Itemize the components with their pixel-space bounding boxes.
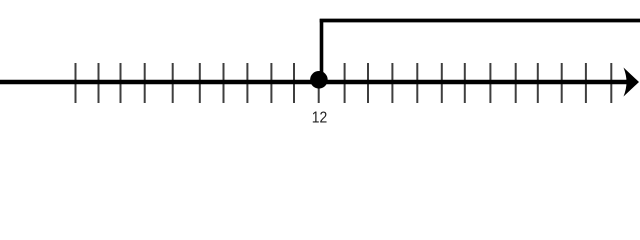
- tick 21: [561, 63, 563, 103]
- tick 10: [293, 63, 295, 103]
- tick 22: [585, 63, 587, 103]
- tick 13: [367, 63, 369, 103]
- tick 1: [75, 63, 77, 103]
- arrowhead (right end of number line): [624, 68, 640, 97]
- tick 19: [515, 63, 517, 103]
- horizontal segment of ray (top line to right edge): [320, 19, 640, 23]
- tick 7: [223, 63, 225, 103]
- tick 2: [98, 63, 100, 103]
- tick 5: [172, 63, 174, 103]
- tick 17: [464, 63, 466, 103]
- tick 8: [246, 63, 248, 103]
- closed point at 12 (filled dot): [310, 71, 328, 89]
- tick 16: [441, 63, 443, 103]
- tick 23: [610, 63, 612, 103]
- tick 3: [120, 63, 122, 103]
- tick 6: [199, 63, 201, 103]
- tick 20: [537, 63, 539, 103]
- number line (main horizontal axis): [0, 80, 628, 85]
- tick 11 (at 12, under closed point): [318, 72, 320, 103]
- tick 15: [416, 63, 418, 103]
- tick 9: [270, 63, 272, 103]
- vertical segment of ray (rises from closed point at 12): [320, 19, 324, 80]
- tick 14: [391, 63, 393, 103]
- tick 12: [344, 63, 346, 103]
- svg-text:12: 12: [312, 110, 328, 127]
- tick 18: [489, 63, 491, 103]
- tick 4: [144, 63, 146, 103]
